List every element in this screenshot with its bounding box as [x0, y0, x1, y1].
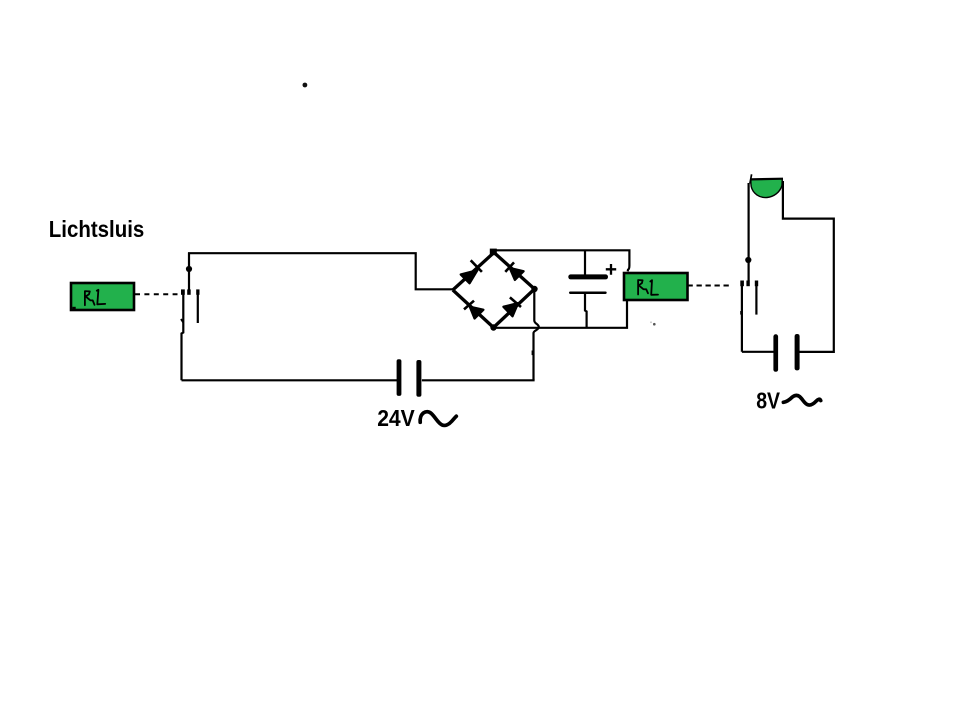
- AC source 24V plates: [397, 359, 402, 396]
- node right corner: [531, 286, 537, 292]
- stray dot: [303, 83, 308, 88]
- filter capacitor C1: [568, 250, 608, 328]
- gray specks: [653, 323, 656, 326]
- wire from top to contact: [188, 253, 190, 291]
- diode D2 upper-right: [505, 262, 523, 279]
- right loop wires: [783, 181, 834, 352]
- wire up to bridge right with crossing hop: [534, 290, 539, 381]
- dashed link RL2 to contact: [688, 285, 733, 287]
- pen tick on wire: [740, 311, 742, 315]
- pen tick on wire: [181, 319, 183, 323]
- tilde squiggle 24V: [420, 412, 456, 426]
- pen tick on wire: [532, 351, 534, 356]
- bridge rectifier diamond: [453, 253, 535, 328]
- switch S1 blade (open): [197, 295, 199, 324]
- lamp (green): [750, 174, 783, 197]
- bottom mid wire to RL2: [494, 301, 628, 328]
- wire to 8V left plate: [742, 351, 774, 353]
- AC source 8V plates: [773, 334, 778, 372]
- wire contact down to bottom: [182, 295, 184, 381]
- diode D3 lower-left: [464, 301, 483, 319]
- bottom wire right section: [422, 379, 535, 381]
- top wire left section: [188, 253, 453, 289]
- wire contact down to 8V: [741, 286, 743, 352]
- diode D1 upper-left: [461, 260, 482, 283]
- junction dot: [745, 257, 751, 263]
- top wire right section: [495, 250, 629, 271]
- node top corner: [490, 249, 497, 256]
- RL1 handwritten label: [85, 290, 105, 305]
- switch S1 contacts: [181, 289, 185, 294]
- relay coil RL1 (left green box): [71, 283, 134, 310]
- relay coil RL2 (right green box): [624, 273, 688, 300]
- dashed link RL1 to contact: [135, 293, 178, 295]
- bottom wire left section: [182, 379, 398, 381]
- junction dot: [186, 266, 192, 272]
- diode D4 lower-right: [504, 297, 522, 316]
- switch S2 contacts: [740, 281, 744, 287]
- switch S2 blade (open): [755, 286, 757, 315]
- plus sign: [606, 264, 616, 275]
- node bottom corner: [490, 324, 496, 330]
- svg-text:8V: 8V: [756, 387, 780, 413]
- tilde squiggle 8V: [783, 395, 820, 405]
- RL2 handwritten label: [638, 280, 658, 295]
- svg-text:24V: 24V: [377, 405, 415, 431]
- wire lamp to contact: [747, 183, 749, 281]
- svg-text:Lichtsluis: Lichtsluis: [49, 216, 145, 242]
